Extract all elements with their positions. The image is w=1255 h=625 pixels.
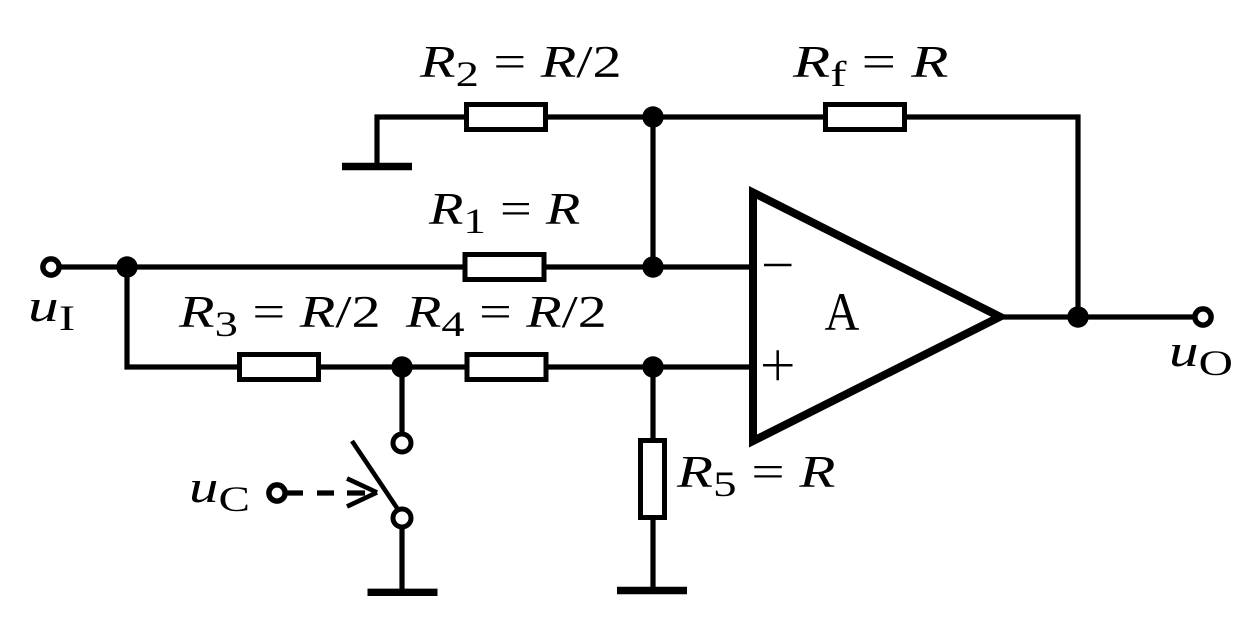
node: R3/R4/switch junction: [391, 356, 412, 377]
svg-text:R4 = R/2: R4 = R/2: [405, 288, 607, 344]
op-amp A triangle: [753, 193, 1000, 442]
ground GND2 (below R5): [617, 587, 687, 595]
svg-text:R1 = R: R1 = R: [428, 185, 580, 241]
label R4 = R/2: [405, 288, 607, 344]
wire: uI to R1: [61, 264, 465, 269]
label uI: [28, 281, 75, 338]
resistor R3: [240, 355, 319, 380]
wire: uC dashed control line: [286, 490, 365, 495]
svg-text:Rf = R: Rf = R: [792, 37, 949, 95]
label uC: [189, 463, 250, 520]
resistor R5: [641, 441, 665, 518]
wire: R4 to op-amp plus input: [545, 364, 753, 369]
wire top-left: ground stem to R2: [377, 117, 466, 166]
switch S1 bottom contact: [393, 509, 411, 527]
resistor Rf: [826, 105, 905, 130]
wire: node down to R5 top: [650, 367, 655, 440]
node: inverting input junction: [642, 256, 663, 277]
node: top junction (inverting net): [642, 106, 663, 127]
resistor R4: [467, 355, 546, 380]
wire: R5 bottom to ground: [650, 518, 655, 590]
label R5 = R: [676, 448, 836, 505]
wire: Rf right, corner down to output node: [905, 117, 1078, 317]
node: non-inverting input junction: [642, 356, 663, 377]
label R2 = R/2: [419, 38, 622, 95]
wire: R3 to R4 (through switch node): [319, 364, 467, 369]
wire: input junction down to lower row: [124, 267, 129, 370]
wire: lower row left (junction to R3): [125, 364, 240, 369]
svg-text:R5 = R: R5 = R: [676, 448, 836, 505]
op-amp plus pin mark: [763, 350, 793, 380]
switch S1 top contact: [393, 434, 411, 452]
resistor R2: [467, 105, 546, 130]
terminal uC (control input): [269, 485, 285, 501]
ground GND1 (below R2 left wire): [342, 163, 412, 171]
wire: R2 right to Rf left (top net): [545, 114, 825, 119]
terminal uI: [43, 259, 59, 275]
svg-text:A: A: [825, 282, 860, 342]
op-amp minus pin mark: [764, 264, 792, 267]
label R3 = R/2: [178, 288, 381, 345]
switch S1 blade: [352, 441, 397, 508]
label Rf = R: [792, 37, 949, 95]
svg-text:R2 = R/2: R2 = R/2: [419, 38, 622, 95]
wire: switch node down to switch top contact: [399, 367, 404, 432]
arrow: control arrowhead: [347, 479, 377, 507]
wire: switch bottom contact to ground: [399, 529, 404, 589]
svg-text:R3 = R/2: R3 = R/2: [178, 288, 381, 345]
node: output junction: [1067, 306, 1088, 327]
ground GND3 (below switch): [368, 589, 438, 596]
terminal uO: [1195, 309, 1211, 325]
label R1 = R: [428, 185, 580, 241]
label A (op-amp gain): [825, 282, 860, 342]
label uO: [1169, 327, 1233, 384]
resistor R1: [465, 255, 544, 280]
wire: vertical inverting net (top node to minus node): [650, 117, 655, 267]
wire: R1 to op-amp minus input: [545, 264, 753, 269]
node: input junction: [116, 256, 137, 277]
wire: op-amp output to uO terminal: [1000, 314, 1194, 319]
